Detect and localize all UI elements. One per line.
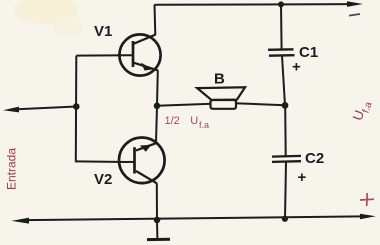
transistor V1	[119, 34, 160, 75]
svg-text:V2: V2	[94, 171, 112, 188]
bottom rail left arrow	[12, 218, 30, 224]
node: bottom rail / right rail junction	[282, 216, 288, 222]
wire: V1 collector to top rail	[154, 5, 157, 36]
bottom rail right arrow (positive supply terminal)	[360, 214, 376, 220]
node: bottom rail / ground junction	[154, 217, 161, 224]
node: top rail / right rail junction	[278, 1, 284, 7]
ground	[147, 238, 170, 241]
wire: right rail from C1 down to mid junction	[282, 56, 285, 106]
wire: V2 emitter up to output node	[156, 106, 157, 143]
transistor V2	[119, 138, 165, 184]
wire: V1 base lead	[76, 54, 133, 56]
wire: input vertical wire	[75, 56, 78, 161]
wire: output node to speaker	[157, 104, 212, 106]
svg-text:+: +	[298, 169, 307, 186]
bottom supply rail wire	[26, 216, 362, 220]
wire: V2 collector down to bottom junction	[156, 183, 158, 220]
wire: right rail from C2 down to bottom junction	[285, 162, 286, 219]
minus label (negative supply)	[349, 14, 360, 16]
top rail arrow (negative supply terminal)	[347, 1, 363, 7]
svg-text:B: B	[214, 71, 225, 88]
svg-text:+: +	[292, 59, 301, 76]
node: output junction	[154, 103, 161, 110]
wire: V1 emitter down to output node	[156, 70, 159, 105]
wire: speaker to right rail junction	[235, 103, 285, 105]
svg-text:Entrada: Entrada	[5, 148, 19, 190]
svg-text:V1: V1	[94, 23, 112, 40]
top supply rail wire	[155, 3, 353, 6]
wire: input lead to the left	[17, 107, 76, 110]
input arrow	[3, 107, 19, 113]
capacitor C1	[268, 49, 295, 55]
node: output / right rail mid junction	[282, 102, 289, 109]
svg-text:C2: C2	[305, 150, 324, 167]
svg-text:C1: C1	[299, 44, 318, 61]
wire: right rail from mid junction down to C2	[284, 105, 287, 156]
plus label (positive supply, red)	[360, 193, 374, 206]
speaker B	[197, 87, 245, 109]
wire: ground stub	[156, 220, 158, 239]
wire: V2 base lead	[76, 161, 134, 162]
node: input junction	[73, 103, 80, 110]
capacitor C2	[272, 156, 301, 162]
wire: right rail from top junction down to C1	[280, 4, 283, 49]
